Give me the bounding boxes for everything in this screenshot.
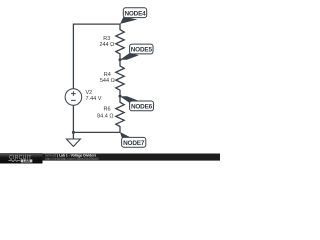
svg-text:R6: R6 bbox=[103, 107, 110, 113]
svg-text:http://circuitlab.com/c36ba45b: http://circuitlab.com/c36ba45b556g8/ bbox=[45, 157, 99, 161]
logo LAB box bbox=[21, 159, 33, 162]
watermark text bar bbox=[43, 154, 221, 161]
resistor R6 bbox=[116, 96, 124, 132]
svg-text:NODE6: NODE6 bbox=[131, 104, 153, 111]
wire: V2 top up and right to NODE4 junction bbox=[73, 24, 120, 89]
svg-text:R4: R4 bbox=[104, 72, 111, 78]
node flag NODE4 box bbox=[123, 8, 146, 18]
svg-text:84.4 Ω: 84.4 Ω bbox=[97, 113, 113, 119]
junction node C (ground/bottom rail dot) bbox=[72, 131, 75, 134]
watermark logo box bbox=[0, 153, 43, 164]
svg-text:NODE5: NODE5 bbox=[131, 47, 153, 54]
resistor R3 bbox=[116, 24, 124, 60]
node flag NODE7 box bbox=[122, 137, 146, 147]
wire: bottom rail from ground junction to NODE7 junction bbox=[73, 131, 120, 133]
svg-text:NODE7: NODE7 bbox=[123, 140, 145, 147]
flag pointer NODE4 bbox=[120, 17, 137, 24]
resistor R4 bbox=[116, 60, 124, 96]
svg-text:244 Ω: 244 Ω bbox=[99, 42, 114, 48]
svg-text:544 Ω: 544 Ω bbox=[100, 78, 115, 84]
svg-text:NODE4: NODE4 bbox=[124, 10, 146, 17]
node flag NODE5 box bbox=[130, 44, 153, 54]
voltage source V2 bbox=[65, 89, 82, 106]
node flag NODE6 box bbox=[130, 101, 154, 111]
svg-text:7.44 V: 7.44 V bbox=[86, 96, 102, 102]
logo zigzag bbox=[9, 160, 20, 162]
ground bbox=[66, 139, 80, 147]
flag pointer NODE7 bbox=[120, 132, 132, 138]
junction node B (NODE6 dot) bbox=[119, 95, 122, 98]
svg-text:LAB: LAB bbox=[23, 159, 31, 163]
junction node A (NODE5 dot) bbox=[119, 58, 122, 61]
wire: V2 bottom down to ground junction bbox=[72, 105, 74, 139]
flag pointer NODE5 bbox=[120, 53, 139, 60]
flag pointer NODE6 bbox=[120, 96, 139, 103]
